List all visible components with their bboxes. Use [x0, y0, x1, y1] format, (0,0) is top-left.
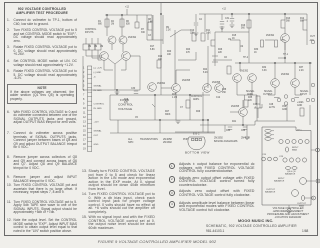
svg-text:TRANSISTORS: TRANSISTORS [140, 138, 158, 141]
svg-text:1K: 1K [232, 38, 235, 40]
svg-text:BALANCE: BALANCE [265, 191, 276, 194]
svg-text:C7: C7 [180, 107, 184, 109]
svg-text:CONTROL: CONTROL [94, 104, 105, 106]
svg-text:15K: 15K [190, 33, 195, 35]
svg-text:INPUT: INPUT [300, 94, 307, 96]
svg-text:7: 7 [83, 94, 85, 97]
svg-text:10: 10 [83, 107, 86, 110]
svg-text:C28: C28 [279, 156, 284, 158]
svg-text:TP-1: TP-1 [283, 54, 289, 56]
svg-text:22.5V: 22.5V [269, 107, 275, 109]
svg-text:3: 3 [317, 179, 319, 183]
svg-text:1M: 1M [94, 46, 97, 48]
svg-text:1M: 1M [111, 24, 114, 26]
svg-text:NPN: NPN [128, 141, 133, 144]
svg-text:R7: R7 [141, 29, 145, 31]
svg-text:AMPL: AMPL [193, 98, 200, 101]
svg-text:R20: R20 [167, 51, 172, 53]
svg-text:6.8K: 6.8K [150, 49, 155, 51]
svg-text:12: 12 [83, 116, 86, 119]
svg-text:AMPL: AMPL [247, 93, 254, 96]
svg-text:R35: R35 [248, 97, 253, 99]
svg-text:+12: +12 [222, 9, 227, 11]
svg-text:560: 560 [241, 28, 246, 30]
svg-text:+12: +12 [125, 7, 130, 9]
svg-text:1M: 1M [100, 46, 103, 48]
svg-text:BALANCE: BALANCE [274, 180, 285, 183]
svg-text:19: 19 [83, 148, 86, 151]
svg-text:GND: GND [297, 105, 302, 107]
svg-text:2N4058: 2N4058 [212, 82, 221, 84]
svg-text:220: 220 [248, 100, 253, 102]
svg-text:2.2K: 2.2K [166, 30, 171, 32]
svg-text:+12V: +12V [94, 122, 100, 124]
svg-text:2N3392: 2N3392 [128, 37, 137, 39]
svg-text:C26: C26 [241, 130, 246, 132]
svg-text:BIAS: BIAS [299, 205, 305, 208]
svg-text:+10db: +10db [297, 102, 304, 104]
svg-text:C3: C3 [148, 35, 152, 37]
svg-text:SIGNAL: SIGNAL [300, 90, 309, 93]
svg-text:OUTPUT: OUTPUT [263, 94, 273, 96]
svg-text:2N4058: 2N4058 [241, 137, 250, 140]
svg-text:390K: 390K [165, 114, 171, 116]
svg-text:R24: R24 [203, 69, 208, 71]
svg-text:.02: .02 [240, 46, 244, 48]
svg-text:2.2K: 2.2K [299, 70, 304, 72]
svg-text:22K: 22K [218, 52, 223, 54]
svg-text:BALANCE: BALANCE [285, 173, 296, 176]
svg-text:100: 100 [158, 59, 163, 61]
svg-text:4: 4 [83, 80, 85, 83]
svg-text:BIAS: BIAS [292, 149, 298, 152]
svg-text:R26: R26 [218, 49, 223, 51]
svg-text:R27: R27 [165, 111, 170, 113]
svg-text:C24: C24 [226, 130, 231, 132]
svg-text:4: 4 [312, 196, 314, 200]
svg-text:IN. GND: IN. GND [94, 90, 103, 92]
svg-text:2N4058: 2N4058 [182, 80, 191, 82]
svg-text:SIGNAL: SIGNAL [264, 90, 273, 93]
svg-text:OUT: OUT [94, 135, 99, 137]
svg-text:47K: 47K [186, 52, 191, 54]
svg-text:C5: C5 [135, 117, 139, 119]
svg-text:R37: R37 [299, 67, 304, 69]
svg-text:E B C: E B C [193, 133, 200, 136]
svg-text:2N3392: 2N3392 [281, 74, 290, 76]
svg-text:SIGNAL: SIGNAL [94, 130, 103, 133]
svg-text:16: 16 [83, 134, 86, 137]
svg-text:8.2K: 8.2K [203, 72, 208, 74]
svg-text:BASING DIAGRAMS: BASING DIAGRAMS [214, 140, 238, 143]
svg-text:R38: R38 [222, 89, 227, 91]
svg-text:1M: 1M [88, 46, 91, 48]
svg-text:C6: C6 [224, 57, 228, 59]
svg-text:C50: C50 [282, 106, 287, 108]
svg-text:1: 1 [288, 209, 290, 213]
svg-text:8: 8 [83, 98, 85, 101]
svg-text:1K: 1K [254, 52, 257, 54]
svg-text:2N3392: 2N3392 [157, 83, 166, 85]
svg-text:11: 11 [83, 112, 86, 115]
svg-text:IN. GND: IN. GND [94, 108, 103, 110]
svg-text:14: 14 [83, 125, 86, 128]
svg-text:15K: 15K [222, 92, 227, 94]
svg-text:680: 680 [300, 21, 305, 23]
svg-text:TP 1: TP 1 [297, 129, 302, 131]
svg-text:R41: R41 [232, 121, 237, 123]
svg-text:(-) GND: (-) GND [94, 72, 102, 74]
svg-text:1: 1 [83, 67, 85, 70]
svg-text:2: 2 [317, 148, 319, 152]
svg-text:18: 18 [83, 143, 86, 146]
svg-text:C12: C12 [216, 97, 221, 99]
svg-text:INPUTS: INPUTS [85, 32, 94, 34]
svg-text:C30: C30 [131, 88, 136, 90]
svg-text:10K: 10K [167, 54, 172, 56]
svg-text:17: 17 [83, 139, 86, 142]
svg-text:R29: R29 [196, 111, 201, 113]
svg-text:C28: C28 [269, 104, 274, 106]
svg-text:9: 9 [83, 103, 85, 106]
svg-text:3.3K: 3.3K [262, 70, 267, 72]
svg-text:TP-2: TP-2 [243, 57, 249, 59]
svg-text:3.3K: 3.3K [206, 33, 211, 35]
svg-text:5: 5 [83, 85, 85, 88]
svg-text:C26: C26 [262, 154, 267, 156]
svg-text:680: 680 [98, 24, 103, 26]
svg-text:R17: R17 [150, 46, 155, 48]
svg-text:OUT: OUT [310, 36, 315, 38]
svg-text:2N4058: 2N4058 [231, 106, 240, 108]
svg-text:15: 15 [83, 130, 86, 133]
svg-text:C31: C31 [225, 18, 230, 20]
svg-text:-12V: -12V [309, 40, 314, 42]
svg-text:SIGNAL: SIGNAL [246, 90, 255, 93]
svg-text:R18: R18 [124, 99, 129, 101]
svg-text:1.8K: 1.8K [148, 22, 153, 24]
svg-text:C14: C14 [253, 104, 258, 106]
svg-text:BOTTOM VIEW: BOTTOM VIEW [185, 151, 210, 155]
svg-text:3: 3 [83, 76, 85, 79]
svg-text:R30: R30 [254, 49, 259, 51]
svg-text:R23: R23 [186, 49, 191, 51]
svg-text:.1: .1 [226, 21, 229, 23]
svg-text:13: 13 [83, 121, 86, 124]
svg-text:47K: 47K [124, 102, 129, 104]
svg-text:VOLTAGE: VOLTAGE [118, 107, 132, 111]
svg-text:2: 2 [83, 71, 85, 74]
svg-text:2N3392: 2N3392 [163, 141, 172, 144]
svg-text:330: 330 [141, 32, 146, 34]
svg-text:C2: C2 [199, 19, 203, 21]
svg-text:6: 6 [83, 89, 85, 92]
svg-text:-6: -6 [94, 77, 97, 79]
svg-text:GND: GND [282, 109, 287, 111]
svg-text:2N3392: 2N3392 [240, 71, 249, 73]
svg-text:82K: 82K [126, 24, 131, 26]
svg-text:SIGNAL: SIGNAL [94, 85, 103, 88]
svg-text:1.1M: 1.1M [172, 97, 177, 99]
svg-text:GND: GND [94, 144, 99, 146]
svg-text:2N3392: 2N3392 [266, 35, 275, 37]
svg-text:CONTROL: CONTROL [85, 29, 97, 31]
svg-text:CONTROL: CONTROL [191, 96, 203, 98]
svg-text:R32: R32 [262, 67, 267, 69]
svg-text:(+) +12V: (+) +12V [94, 68, 103, 70]
svg-text:R25: R25 [172, 94, 177, 96]
svg-text:R15: R15 [232, 35, 237, 37]
svg-text:R19: R19 [158, 56, 163, 58]
svg-text:56K: 56K [286, 21, 291, 23]
